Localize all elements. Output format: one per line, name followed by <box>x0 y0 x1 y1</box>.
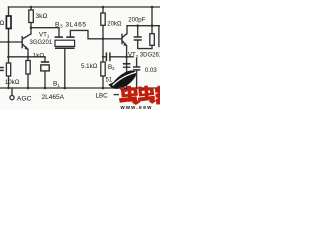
node ground 10k <box>7 87 9 89</box>
resonator B2 (partly hidden by watermark) <box>123 64 131 67</box>
resonator B1 <box>41 62 49 71</box>
resistor 1k <box>26 61 30 75</box>
node right rail top <box>151 6 154 9</box>
wire 1k to ground <box>27 74 29 88</box>
svg-text:Ω: Ω <box>0 20 5 27</box>
wire left bias vertical mid <box>8 29 10 64</box>
wire base line to left edge <box>0 41 22 43</box>
node ground 0.03 <box>135 87 138 90</box>
wire 20k top lead <box>102 7 104 13</box>
svg-text:www.eew: www.eew <box>120 105 153 110</box>
capacitor series (between divider and VT2 emitter) <box>106 52 110 61</box>
svg-text:0.03: 0.03 <box>145 67 158 74</box>
wire 3k top lead <box>30 7 32 10</box>
svg-text:10kΩ: 10kΩ <box>5 79 20 86</box>
resistor right edge <box>150 34 155 46</box>
node 3k bottom / VT1 collector <box>30 26 33 29</box>
watermark black swoosh glyph <box>111 71 137 89</box>
node VT2 emitter <box>125 56 128 59</box>
wire filter B3 output to VT2 base <box>70 30 121 38</box>
watermark red character 1 <box>119 86 141 105</box>
transistor VT1 <box>22 34 31 50</box>
node VT1 emitter <box>27 56 30 59</box>
wire ground rail <box>0 87 160 89</box>
wire 200pF top lead <box>137 26 139 37</box>
node 3k top <box>30 6 33 9</box>
wire AGC terminal riser <box>11 88 13 95</box>
ceramic filter B3 <box>55 36 75 48</box>
resistor 3k <box>29 10 34 23</box>
wire 5.1k to ground <box>102 76 104 88</box>
node divider mid <box>102 56 104 58</box>
capacitor 200pF <box>134 37 142 40</box>
wire filter B3 ground lead <box>64 49 66 88</box>
node ground B3 <box>64 87 67 90</box>
svg-text:5.1kΩ: 5.1kΩ <box>81 63 98 70</box>
node VT2 base divider <box>102 38 105 41</box>
AGC terminal <box>10 96 14 100</box>
junction dots <box>7 6 153 90</box>
wire 10k to ground <box>8 76 10 88</box>
resistor 10k <box>6 63 10 76</box>
watermark dash <box>114 94 120 96</box>
node bias left <box>7 56 10 59</box>
wire 0.03 cap bottom lead <box>136 70 138 88</box>
resistor (left, value off-edge) <box>6 16 11 29</box>
node ground B1 <box>44 87 47 90</box>
svg-text:200pF: 200pF <box>128 17 145 23</box>
wire series cap left lead <box>103 56 106 58</box>
wire left vertical from rail <box>8 7 10 16</box>
node ground 1k <box>27 87 30 90</box>
resistor 5.1k <box>101 62 105 76</box>
capacitor at left edge <box>0 68 4 71</box>
wire VT2 emitter down <box>126 46 128 88</box>
wire 0.03 cap top lead <box>136 59 138 67</box>
watermark red character 3 (cut at edge) <box>155 86 160 105</box>
svg-text:3kΩ: 3kΩ <box>36 13 48 20</box>
resistor 20k <box>101 13 105 25</box>
wire VT1 collector <box>30 28 32 34</box>
svg-text:B3 3L465: B3 3L465 <box>55 21 87 28</box>
wire 200pF bottom lead <box>138 41 152 49</box>
svg-text:2L465A: 2L465A <box>42 94 65 101</box>
wire emitter bypass row left <box>9 56 46 58</box>
wire VT1 emitter down <box>27 50 29 61</box>
svg-text:AGC: AGC <box>17 96 32 103</box>
wire VT2 collector up <box>126 26 128 34</box>
node base cross left <box>7 41 9 43</box>
node 200pF top <box>136 24 139 27</box>
wire divider vertical <box>102 25 104 62</box>
transistor VT2 <box>122 34 127 46</box>
svg-text:3GG201: 3GG201 <box>30 40 53 46</box>
wire node to filter B3 input <box>31 28 59 37</box>
node 20k top <box>102 6 105 9</box>
wire B1 resonator bottom lead <box>44 71 46 88</box>
node right resistor top <box>151 24 154 27</box>
wire cut component at right edge <box>158 27 160 47</box>
node ground 5.1k <box>102 87 105 90</box>
wire top rail drop at x=152 <box>151 7 153 26</box>
svg-text:20kΩ: 20kΩ <box>107 21 122 27</box>
wire series cap right lead to emitter <box>111 56 133 58</box>
wire B1 resonator top lead <box>44 57 46 62</box>
svg-text:1kΩ: 1kΩ <box>33 53 45 60</box>
wire right edge resistor top lead <box>151 26 153 34</box>
svg-text:VT2 3DG261: VT2 3DG261 <box>128 53 160 59</box>
wire 3k bottom to node <box>30 23 32 28</box>
svg-text:LBC: LBC <box>96 93 109 100</box>
wire top supply rail <box>9 6 161 8</box>
watermark red character 2 <box>138 86 157 104</box>
wire collector rail right <box>127 25 160 27</box>
svg-text:51: 51 <box>106 78 113 84</box>
capacitor 0.03 <box>133 67 140 70</box>
